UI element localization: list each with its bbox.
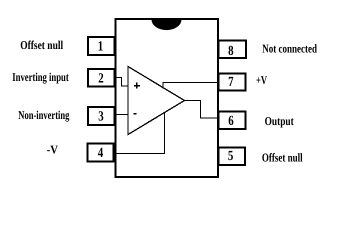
pin 5 box (219, 148, 246, 166)
pin 7 box (219, 74, 246, 91)
pin 8 box (219, 41, 247, 59)
wire -V: pin 4 to triangle bottom edge (115, 112, 165, 154)
svg-text:Inverting input: Inverting input (12, 70, 68, 84)
pin 2 box (88, 69, 115, 87)
svg-text:Offset null: Offset null (20, 38, 63, 52)
IC body U1 (DIP-8 package outline) (116, 19, 219, 177)
svg-text:7: 7 (228, 75, 233, 90)
wire output: apex to pin 6 (184, 101, 219, 119)
pin 6 box (219, 112, 246, 130)
op-amp U1 triangle (128, 67, 185, 135)
pin 1 box (88, 37, 115, 55)
wire +V: triangle top edge to pin 7 (163, 83, 219, 89)
svg-text:Not connected: Not connected (262, 41, 317, 55)
svg-text:-V: -V (47, 143, 59, 157)
svg-text:Non-inverting: Non-inverting (18, 108, 69, 122)
svg-text:+V: +V (256, 73, 267, 87)
svg-text:2: 2 (98, 71, 103, 86)
svg-text:5: 5 (228, 149, 233, 164)
svg-text:6: 6 (228, 114, 233, 129)
+ input marker (134, 83, 140, 89)
svg-text:3: 3 (98, 110, 103, 125)
svg-text:8: 8 (228, 44, 233, 59)
- input marker (133, 113, 136, 115)
svg-text:Offset null: Offset null (262, 151, 303, 165)
svg-text:Output: Output (265, 114, 294, 128)
svg-text:4: 4 (98, 146, 103, 161)
pin 4 box (88, 144, 114, 162)
pin 3 box (88, 107, 115, 125)
pin-1 notch (filled half-ellipse on top edge) (152, 20, 182, 31)
wire pin2 to + input (jog) (115, 78, 129, 87)
svg-text:1: 1 (98, 40, 103, 55)
wire pin3 to - input (115, 114, 129, 116)
